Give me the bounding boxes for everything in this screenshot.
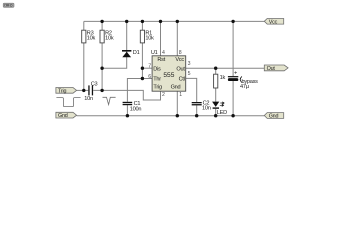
wire pin1 stub to ground <box>176 91 178 116</box>
svg-text:Gnd: Gnd <box>171 85 181 91</box>
svg-text:D1: D1 <box>133 50 140 56</box>
junction dot trig/R3 <box>82 89 85 92</box>
op IC 555 U1 <box>151 50 186 91</box>
junction dot Dis tee <box>141 67 144 70</box>
wire pin8 stub <box>176 21 178 55</box>
port tag Trig <box>56 88 77 95</box>
svg-text:6: 6 <box>148 74 151 80</box>
svg-text:LED: LED <box>217 110 227 116</box>
svg-text:Thr: Thr <box>153 77 161 83</box>
wire pin4 stub <box>160 21 162 55</box>
resistor 1k <box>214 74 226 88</box>
resistor R2 <box>100 30 114 43</box>
svg-text:47µ: 47µ <box>240 84 250 90</box>
svg-text:1k: 1k <box>220 75 226 81</box>
port tag Gnd right <box>264 113 283 120</box>
wire Ctl pin to C2 <box>186 78 197 102</box>
wire R1 column <box>141 21 143 78</box>
wire Thr pin to C1 column <box>127 79 152 102</box>
svg-text:Gnd: Gnd <box>269 114 279 120</box>
wire Vcc rail <box>84 20 264 22</box>
svg-text:Out: Out <box>176 66 185 72</box>
logo badge top-left <box>3 3 14 7</box>
wire D1 column and link to R2 <box>102 21 127 68</box>
svg-text:Out: Out <box>267 66 276 72</box>
junction dot out/1k <box>214 67 217 70</box>
svg-text:100n: 100n <box>130 107 142 113</box>
svg-text:Vcc: Vcc <box>175 57 184 63</box>
wire C1 to ground <box>126 105 128 116</box>
junction dot R2/D1 <box>100 67 103 70</box>
wire Trig net left of C3 <box>77 89 89 91</box>
capacitor C1 <box>123 101 142 112</box>
wire Out net <box>186 67 265 69</box>
wire R2 column <box>101 21 103 90</box>
annotation pulse glyph wide <box>56 98 80 107</box>
port tag Vcc <box>264 19 283 26</box>
svg-text:1: 1 <box>179 92 182 98</box>
svg-text:Ctl: Ctl <box>179 77 185 83</box>
junction dot trig/R2 <box>100 89 103 92</box>
resistor R3 <box>82 30 96 43</box>
svg-text:Gnd: Gnd <box>58 113 68 119</box>
wire 1k/LED column <box>215 68 217 116</box>
wire bypass column <box>232 21 234 115</box>
svg-text:10k: 10k <box>105 36 114 42</box>
svg-text:C3: C3 <box>91 81 98 87</box>
svg-text:3: 3 <box>188 61 191 67</box>
junction dot Thr tee <box>141 77 144 80</box>
junction dots top rail <box>100 20 234 23</box>
wire C2 to ground <box>196 105 198 115</box>
svg-text:Trig: Trig <box>153 85 162 91</box>
svg-text:10k: 10k <box>87 36 96 42</box>
svg-text:8: 8 <box>179 50 182 56</box>
diode D1 <box>122 50 140 58</box>
svg-text:Vcc: Vcc <box>269 19 278 25</box>
wire R3 column <box>83 21 85 90</box>
wire Dis pin <box>142 67 152 69</box>
svg-text:10n: 10n <box>84 96 93 102</box>
LED <box>212 102 227 116</box>
port tag Out <box>264 65 288 72</box>
svg-text:U1: U1 <box>151 50 158 56</box>
wire Trig net right of C3 <box>93 90 160 100</box>
resistor R1 <box>140 30 154 43</box>
svg-text:2: 2 <box>162 92 165 98</box>
capacitor bypass 47u electrolytic <box>228 71 258 90</box>
capacitor C2 <box>192 101 211 112</box>
svg-text:Trig: Trig <box>58 88 66 94</box>
svg-text:555: 555 <box>163 72 174 79</box>
svg-text:10n: 10n <box>202 106 211 112</box>
port tag Gnd left <box>56 112 77 119</box>
wire ground rail <box>77 115 265 117</box>
svg-text:Dis: Dis <box>153 66 161 72</box>
svg-text:4: 4 <box>162 50 165 56</box>
svg-text:+: + <box>234 71 237 77</box>
junction dots ground rail <box>126 114 235 117</box>
svg-text:7: 7 <box>148 64 151 70</box>
svg-text:5: 5 <box>188 71 191 77</box>
svg-text:Rst: Rst <box>157 57 165 63</box>
svg-text:10k: 10k <box>145 36 154 42</box>
capacitor C3 <box>84 81 97 102</box>
annotation spike glyph <box>103 97 116 104</box>
